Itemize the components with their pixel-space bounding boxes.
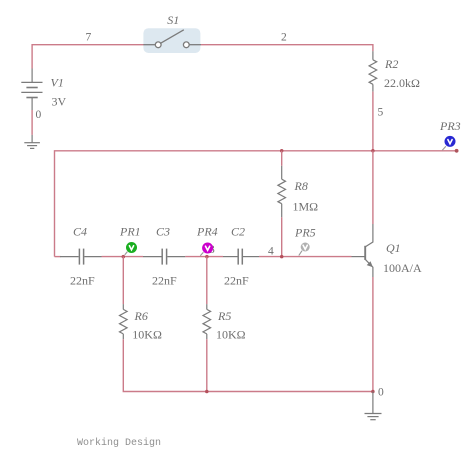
- capacitor C2: [223, 249, 259, 265]
- node 2: [281, 32, 287, 44]
- svg-text:PR1: PR1: [119, 225, 141, 239]
- wire collector net: [372, 151, 374, 224]
- wire R8 bottom to row: [281, 217, 283, 256]
- node 0 (battery): [36, 109, 42, 121]
- wire mid horizontal net: [55, 151, 373, 257]
- svg-text:22nF: 22nF: [224, 273, 249, 287]
- wire battery to ground: [31, 110, 33, 135]
- wire R2 bottom to mid junction, net 5: [372, 92, 374, 151]
- wire emitter to bottom net 0: [372, 277, 374, 392]
- switch S1: [143, 30, 201, 48]
- svg-text:1MΩ: 1MΩ: [293, 200, 319, 214]
- probe PR5: [299, 243, 310, 256]
- svg-text:R2: R2: [384, 57, 398, 71]
- resistor R6: [120, 304, 128, 339]
- svg-text:10KΩ: 10KΩ: [216, 328, 246, 342]
- ground (bottom): [365, 392, 382, 420]
- svg-text:R6: R6: [134, 309, 148, 323]
- title text: [77, 437, 161, 449]
- svg-text:PR4: PR4: [196, 225, 218, 239]
- svg-text:3V: 3V: [52, 95, 67, 109]
- svg-text:22.0kΩ: 22.0kΩ: [384, 76, 420, 90]
- svg-text:0: 0: [36, 109, 42, 121]
- svg-text:R8: R8: [294, 179, 308, 193]
- node 7: [86, 32, 92, 44]
- resistor R5: [203, 304, 211, 339]
- svg-text:Q1: Q1: [386, 241, 401, 255]
- ground (battery): [24, 135, 40, 149]
- wire top net 7: battery top to switch left: [32, 45, 144, 69]
- capacitor C3: [143, 249, 185, 265]
- resistor R8: [278, 166, 286, 218]
- svg-text:Working Design: Working Design: [77, 437, 161, 449]
- wire R8 top lead net: [281, 151, 283, 166]
- junction PR4 / node 3: [205, 255, 209, 259]
- svg-text:22nF: 22nF: [70, 273, 95, 287]
- capacitor C4: [60, 249, 102, 265]
- wire R5 branch: [206, 257, 208, 305]
- svg-text:R5: R5: [217, 309, 231, 323]
- svg-text:100A/A: 100A/A: [383, 261, 422, 275]
- svg-text:0: 0: [378, 387, 384, 399]
- probe PR1: [125, 242, 137, 255]
- junction PR1: [122, 255, 126, 259]
- wire top net 2: switch right to R2 top: [201, 45, 373, 52]
- svg-text:V1: V1: [51, 76, 64, 90]
- node 5: [378, 107, 384, 119]
- probe PR3: [442, 136, 455, 150]
- junction R5 bottom: [205, 390, 209, 394]
- svg-text:C3: C3: [156, 225, 170, 239]
- svg-text:C2: C2: [231, 225, 245, 239]
- svg-text:4: 4: [268, 246, 274, 258]
- junction mid at R2: [371, 149, 375, 153]
- probe PR4: [200, 243, 213, 256]
- battery V1: [21, 69, 42, 111]
- svg-text:10KΩ: 10KΩ: [132, 328, 162, 342]
- svg-text:S1: S1: [167, 13, 179, 27]
- svg-text:5: 5: [378, 107, 384, 119]
- wire R6 bottom to bottom wire: [123, 339, 373, 391]
- wire capacitor row: [55, 256, 352, 258]
- svg-text:PR5: PR5: [294, 226, 316, 240]
- svg-text:22nF: 22nF: [152, 273, 177, 287]
- svg-text:C4: C4: [73, 225, 87, 239]
- wire PR3 stub: [373, 150, 457, 152]
- node 3 label (partially hidden): [209, 244, 215, 256]
- node 4: [268, 246, 274, 258]
- svg-text:PR3: PR3: [439, 119, 461, 133]
- wire R5 bottom lead: [206, 339, 208, 391]
- svg-text:2: 2: [281, 32, 287, 44]
- PR3 end point: [455, 149, 459, 153]
- svg-text:7: 7: [86, 32, 92, 44]
- node 0 (bottom): [378, 387, 384, 399]
- resistor R2: [369, 51, 377, 91]
- junction node 4 at R8 bottom: [280, 255, 284, 259]
- wire R6 branch: [122, 257, 124, 305]
- junction R8 top: [280, 149, 284, 153]
- transistor Q1: [352, 224, 373, 277]
- junction bottom right node 0: [371, 390, 375, 394]
- switch S1 highlight box: [143, 28, 200, 53]
